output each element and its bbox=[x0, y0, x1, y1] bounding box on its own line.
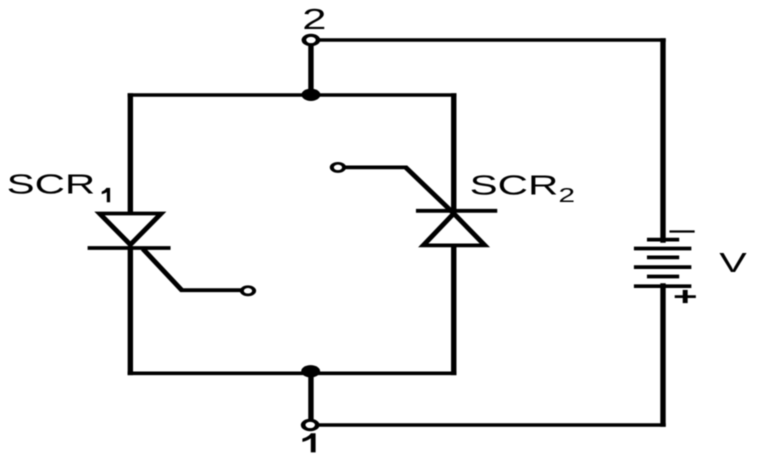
wire left branch lower (SCR1 cathode to bottom rail) bbox=[129, 248, 133, 373]
battery plate long 3 bbox=[634, 284, 691, 288]
SCR1 thyristor (anode top, cathode bottom, gate to lower-right) bbox=[90, 214, 241, 291]
svg-text:SCR2: SCR2 bbox=[470, 169, 575, 206]
SCR1 gate terminal circle bbox=[242, 287, 254, 295]
SCR1 cathode bar bbox=[90, 246, 167, 250]
SCR2 gate terminal circle bbox=[332, 163, 344, 171]
SCR1 subscript 1 glyph bbox=[102, 188, 110, 202]
wire stub terminal 2 to top rail bbox=[309, 46, 313, 95]
node 1 terminal label bbox=[302, 433, 315, 452]
wire bottom rail (node 1 internal) bbox=[130, 371, 453, 375]
SCR1 triangle (anode->cathode, pointing down) bbox=[100, 214, 162, 245]
svg-text:V: V bbox=[719, 248, 747, 279]
wire battery bottom to terminal 1 bbox=[318, 423, 663, 427]
battery plate short 2 bbox=[647, 256, 679, 260]
wire right branch upper (top rail to SCR2 cathode) bbox=[452, 95, 456, 213]
battery minus polarity mark bbox=[669, 230, 694, 232]
SCR2 cathode bar bbox=[419, 209, 495, 213]
SCR1 gate lead bbox=[145, 251, 241, 290]
terminal 1 open circle bbox=[303, 420, 317, 429]
wire left branch upper (top rail to SCR1 anode) bbox=[129, 95, 133, 214]
svg-text:SCR: SCR bbox=[7, 168, 96, 199]
SCR2 thyristor (anode bottom, cathode top, gate to upper-left) bbox=[346, 167, 495, 245]
battery plate short 3 bbox=[647, 275, 679, 279]
node 2 junction dot on top rail bbox=[302, 89, 321, 101]
node 1 junction dot on bottom rail bbox=[301, 365, 320, 377]
SCR2 triangle (anode->cathode, pointing up) bbox=[423, 214, 485, 246]
battery plate short 1 bbox=[647, 238, 679, 242]
battery V cells bbox=[634, 240, 691, 287]
terminal 2 open circle bbox=[304, 35, 318, 44]
svg-text:2: 2 bbox=[302, 3, 326, 35]
wire battery negative lead bbox=[661, 40, 665, 241]
wire stub bottom rail to terminal 1 bbox=[309, 373, 313, 419]
wire battery positive lead bbox=[661, 285, 665, 425]
wire right branch lower (SCR2 anode to bottom rail) bbox=[452, 246, 456, 374]
battery plus polarity mark bbox=[675, 290, 696, 303]
wire terminal 2 to battery top bbox=[320, 38, 664, 42]
SCR2 gate lead bbox=[346, 167, 453, 212]
battery plate long 2 bbox=[634, 265, 691, 269]
battery plate long 1 bbox=[634, 247, 691, 251]
wire top rail (node 2 internal) bbox=[130, 93, 453, 97]
